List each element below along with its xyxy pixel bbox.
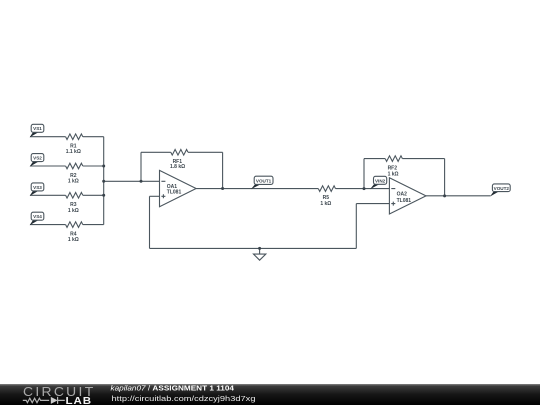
node bus-opamp <box>102 180 105 183</box>
footer bar <box>0 384 540 405</box>
wire <box>83 224 104 226</box>
flag VS2 <box>30 154 44 167</box>
node bus-VS3 <box>102 194 105 197</box>
wire <box>30 224 66 226</box>
node RF1 left <box>140 180 143 183</box>
node RF1 right <box>221 187 224 190</box>
op-amp OA1 <box>160 170 197 206</box>
wire <box>355 204 357 249</box>
wire <box>150 195 160 197</box>
svg-text:1 kΩ: 1 kΩ <box>320 201 331 207</box>
flag VS4 <box>30 212 44 225</box>
svg-text:VS3: VS3 <box>33 185 42 190</box>
wire <box>83 165 104 167</box>
node junction dots <box>102 165 446 250</box>
svg-text:1 kΩ: 1 kΩ <box>68 179 79 185</box>
flag VOUT1 <box>251 176 273 189</box>
svg-text:LAB: LAB <box>66 396 93 405</box>
svg-text:TL081: TL081 <box>167 190 182 196</box>
wire <box>444 159 446 196</box>
svg-text:1.8 kΩ: 1.8 kΩ <box>170 164 185 170</box>
svg-text:VIN2: VIN2 <box>375 178 386 183</box>
wire <box>30 194 66 196</box>
svg-text:1.1 kΩ: 1.1 kΩ <box>66 149 81 155</box>
node ground <box>258 247 261 250</box>
wire <box>30 165 66 167</box>
flag VIN2 <box>370 176 387 189</box>
flag VOUT2 <box>490 184 510 197</box>
svg-text:1 kΩ: 1 kΩ <box>68 237 79 243</box>
wire <box>222 152 224 188</box>
svg-text:1 kΩ: 1 kΩ <box>388 172 399 178</box>
wire <box>363 159 365 189</box>
node RF2 left <box>363 187 366 190</box>
wire <box>30 136 66 138</box>
wire <box>141 151 171 153</box>
wire <box>188 151 223 153</box>
wire <box>83 194 104 196</box>
op-amp OA2 <box>389 178 426 214</box>
wire <box>336 188 390 190</box>
wire <box>83 136 104 138</box>
resistor RF1 <box>171 150 188 156</box>
wire <box>103 137 105 225</box>
node RF2 right <box>443 194 446 197</box>
flag VS1 <box>30 124 44 137</box>
svg-text:1 kΩ: 1 kΩ <box>68 208 79 214</box>
wire <box>356 203 389 205</box>
svg-text:VS1: VS1 <box>33 126 42 131</box>
logo squiggle resistor <box>23 398 49 402</box>
labels <box>66 144 412 244</box>
wire <box>364 158 385 160</box>
wire <box>104 180 160 182</box>
wire <box>149 196 151 248</box>
resistor R2 <box>66 163 83 169</box>
ground <box>259 248 261 254</box>
flag VS3 <box>30 183 44 196</box>
svg-text:VS2: VS2 <box>33 156 42 161</box>
svg-text:kapilan07 / ASSIGNMENT 1 1104: kapilan07 / ASSIGNMENT 1 1104 <box>111 383 235 392</box>
resistor R5 <box>318 186 335 192</box>
svg-text:VOUT2: VOUT2 <box>494 186 510 191</box>
wire <box>150 247 357 249</box>
logo diode <box>51 397 58 404</box>
resistor R4 <box>66 222 83 228</box>
wire <box>140 152 142 181</box>
svg-text:VOUT1: VOUT1 <box>256 178 272 183</box>
resistor R3 <box>66 193 83 199</box>
wire <box>196 188 318 190</box>
resistor R1 <box>66 134 83 140</box>
svg-text:OA2: OA2 <box>397 191 408 197</box>
wire <box>426 195 490 197</box>
resistor RF2 <box>385 156 402 162</box>
svg-text:http://circuitlab.com/cdzcyj9h: http://circuitlab.com/cdzcyj9h3d7xg <box>112 394 256 403</box>
svg-text:VS4: VS4 <box>33 214 42 219</box>
node bus-VS2 <box>102 165 105 168</box>
wire <box>402 158 444 160</box>
svg-text:TL081: TL081 <box>397 198 412 204</box>
